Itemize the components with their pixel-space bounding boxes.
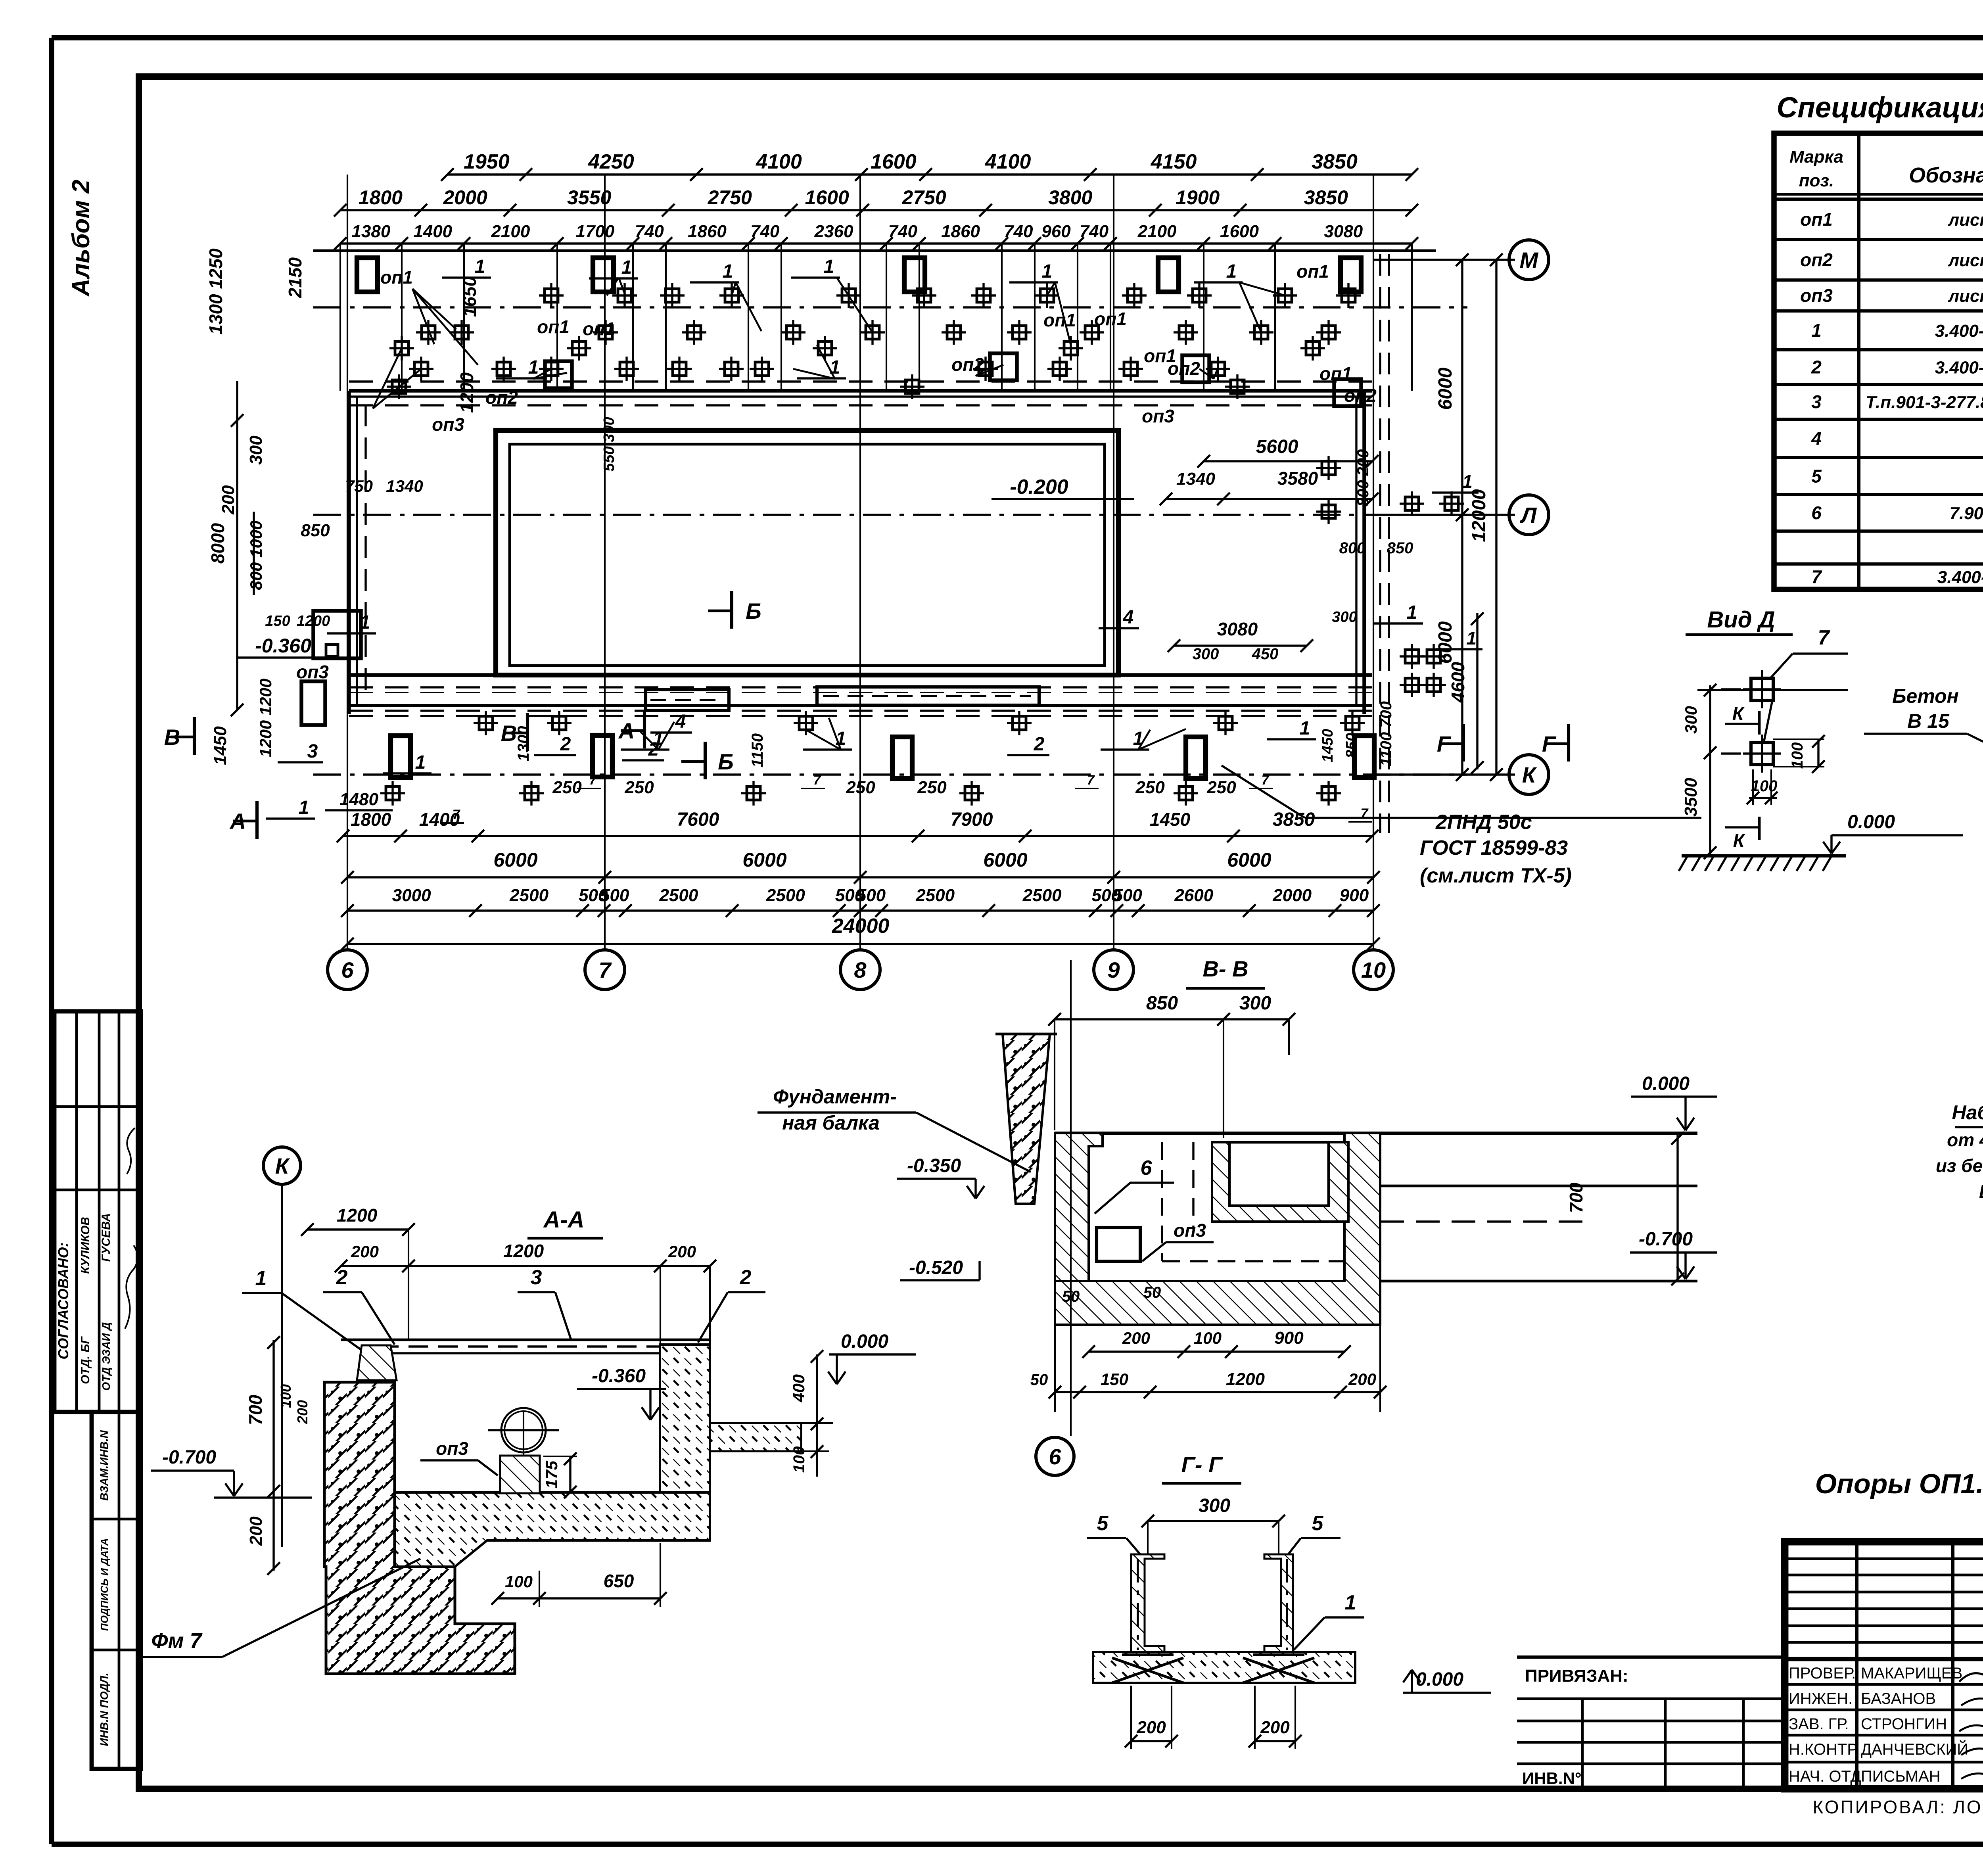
svg-text:7: 7 bbox=[1811, 566, 1822, 587]
svg-text:1: 1 bbox=[723, 261, 733, 282]
svg-text:175: 175 bbox=[542, 1460, 561, 1489]
svg-text:лист 9: лист 9 bbox=[1948, 210, 1983, 230]
svg-text:5: 5 bbox=[1312, 1512, 1324, 1535]
svg-text:1600: 1600 bbox=[871, 150, 917, 173]
svg-text:6000: 6000 bbox=[1435, 621, 1456, 664]
svg-text:700: 700 bbox=[245, 1395, 266, 1425]
svg-text:7: 7 bbox=[1262, 773, 1270, 788]
svg-text:100: 100 bbox=[1751, 777, 1778, 795]
250 dims row bbox=[440, 773, 1372, 823]
svg-text:850: 850 bbox=[301, 521, 330, 540]
svg-text:2000: 2000 bbox=[1272, 886, 1312, 905]
svg-text:200: 200 bbox=[668, 1242, 696, 1261]
svg-text:500: 500 bbox=[1113, 886, 1142, 905]
svg-text:1200: 1200 bbox=[503, 1241, 544, 1261]
svg-text:1: 1 bbox=[1407, 602, 1417, 623]
svg-text:1: 1 bbox=[1466, 628, 1477, 648]
svg-text:2500: 2500 bbox=[915, 886, 955, 905]
svg-text:1860: 1860 bbox=[941, 222, 980, 241]
svg-text:К: К bbox=[1732, 703, 1745, 724]
svg-text:150: 150 bbox=[265, 613, 290, 629]
svg-text:оп1: оп1 bbox=[1800, 209, 1833, 230]
svg-text:В- В: В- В bbox=[1202, 956, 1248, 981]
svg-text:700: 700 bbox=[1566, 1182, 1586, 1213]
svg-text:ИНЖЕН.: ИНЖЕН. bbox=[1789, 1690, 1853, 1707]
svg-text:Т.п.901-3-277.89КЖ.И80.0.0: Т.п.901-3-277.89КЖ.И80.0.0 bbox=[1866, 393, 1983, 412]
svg-text:2500: 2500 bbox=[1022, 886, 1062, 905]
svg-text:400: 400 bbox=[789, 1374, 808, 1402]
axis L dash-dot bbox=[313, 514, 1467, 516]
svg-text:5: 5 bbox=[1811, 466, 1822, 487]
svg-text:Фундамент-: Фундамент- bbox=[773, 1086, 897, 1108]
plan left wall bbox=[349, 391, 366, 714]
svg-text:3500: 3500 bbox=[1681, 778, 1701, 817]
svg-text:3.400- 6/76: 3.400- 6/76 bbox=[1935, 321, 1983, 341]
svg-text:ПРИВЯЗАН:: ПРИВЯЗАН: bbox=[1525, 1666, 1628, 1686]
svg-text:НАЧ. ОТД: НАЧ. ОТД bbox=[1789, 1768, 1861, 1785]
left margin inventory strip bbox=[92, 1412, 141, 1769]
svg-text:1200: 1200 bbox=[1226, 1370, 1265, 1389]
svg-text:1340: 1340 bbox=[1176, 469, 1215, 489]
svg-text:250: 250 bbox=[552, 778, 582, 797]
svg-text:7: 7 bbox=[1087, 773, 1095, 788]
section G-G bbox=[1087, 1495, 1491, 1749]
svg-text:оп2: оп2 bbox=[485, 387, 518, 408]
svg-text:Л: Л bbox=[1520, 503, 1537, 528]
svg-text:300: 300 bbox=[1239, 993, 1271, 1014]
svg-text:200: 200 bbox=[1348, 1370, 1376, 1389]
plan bottom wall band bbox=[349, 675, 1372, 716]
svg-text:250: 250 bbox=[846, 778, 875, 797]
svg-text:ная балка: ная балка bbox=[782, 1112, 880, 1134]
detail Vid D bbox=[1679, 626, 1963, 871]
svg-text:поз.: поз. bbox=[1799, 171, 1834, 190]
svg-text:ИНВ.N ПОДЛ.: ИНВ.N ПОДЛ. bbox=[98, 1673, 110, 1746]
axis M dash-dot bbox=[313, 306, 1467, 308]
svg-text:4: 4 bbox=[1123, 607, 1134, 628]
svg-text:1950: 1950 bbox=[464, 150, 510, 173]
svg-text:3850: 3850 bbox=[1273, 809, 1315, 830]
svg-text:Б: Б bbox=[718, 749, 734, 774]
svg-text:6000: 6000 bbox=[493, 849, 537, 871]
svg-text:КОПИРОВАЛ: ЛОГИНОВА: КОПИРОВАЛ: ЛОГИНОВА bbox=[1812, 1797, 1983, 1817]
grid bubble M bbox=[1509, 240, 1549, 280]
svg-text:1900: 1900 bbox=[1176, 186, 1220, 209]
svg-text:М: М bbox=[1520, 247, 1539, 272]
svg-text:5600: 5600 bbox=[1256, 436, 1298, 457]
svg-text:740: 740 bbox=[1004, 222, 1033, 241]
svg-text:50: 50 bbox=[1143, 1284, 1161, 1301]
svg-text:100: 100 bbox=[790, 1446, 808, 1473]
detail K-K bbox=[1864, 677, 1983, 808]
concrete note bbox=[1815, 1468, 1983, 1499]
detail Vid D heading bbox=[1686, 607, 1793, 635]
svg-text:6: 6 bbox=[1811, 503, 1822, 523]
svg-text:1: 1 bbox=[1226, 261, 1237, 282]
svg-text:200: 200 bbox=[1260, 1718, 1290, 1737]
svg-text:2: 2 bbox=[560, 734, 571, 755]
svg-text:3: 3 bbox=[307, 741, 318, 762]
svg-text:ДАНЧЕВСКИЙ: ДАНЧЕВСКИЙ bbox=[1861, 1740, 1968, 1758]
svg-text:1150: 1150 bbox=[749, 733, 766, 767]
svg-text:7: 7 bbox=[813, 773, 822, 788]
grid bubble 8 bbox=[840, 950, 880, 990]
svg-text:1200: 1200 bbox=[337, 1205, 378, 1226]
svg-text:оп2: оп2 bbox=[951, 354, 984, 375]
svg-text:4250: 4250 bbox=[588, 150, 634, 173]
grid bubble 10 bbox=[1354, 950, 1393, 990]
grid bubble 9 bbox=[1094, 950, 1133, 990]
svg-text:СОГЛАСОВАНО:: СОГЛАСОВАНО: bbox=[55, 1242, 71, 1359]
svg-text:ЗАВ. ГР.: ЗАВ. ГР. bbox=[1789, 1715, 1849, 1733]
svg-text:К: К bbox=[275, 1153, 290, 1178]
svg-text:1: 1 bbox=[1133, 728, 1144, 749]
svg-text:БАЗАНОВ: БАЗАНОВ bbox=[1861, 1690, 1936, 1707]
svg-text:от 40 до 200: от 40 до 200 bbox=[1947, 1130, 1983, 1150]
svg-text:1300 1250: 1300 1250 bbox=[205, 248, 226, 335]
svg-text:1: 1 bbox=[836, 728, 846, 749]
svg-text:(см.лист ТХ-5): (см.лист ТХ-5) bbox=[1420, 864, 1572, 887]
svg-text:300: 300 bbox=[1332, 609, 1357, 625]
svg-text:Марка: Марка bbox=[1789, 147, 1843, 167]
svg-text:Бетон: Бетон bbox=[1892, 685, 1959, 707]
svg-text:1: 1 bbox=[824, 256, 834, 277]
svg-text:9: 9 bbox=[1107, 957, 1120, 982]
svg-text:2500: 2500 bbox=[659, 886, 698, 905]
svg-text:3850: 3850 bbox=[1312, 150, 1358, 173]
svg-text:740: 740 bbox=[1080, 222, 1109, 241]
svg-text:МАКАРИЩЕВ: МАКАРИЩЕВ bbox=[1861, 1665, 1962, 1682]
svg-text:2100: 2100 bbox=[1137, 222, 1177, 241]
bottom dim row 1 bbox=[337, 809, 1379, 842]
svg-text:450: 450 bbox=[1252, 645, 1279, 663]
foundation beam in plan bbox=[646, 687, 1039, 710]
svg-text:1650: 1650 bbox=[459, 276, 480, 317]
svg-text:100: 100 bbox=[1789, 742, 1806, 769]
svg-text:2600: 2600 bbox=[1174, 886, 1213, 905]
svg-text:1400: 1400 bbox=[413, 222, 452, 241]
svg-text:Обозначение: Обозначение bbox=[1909, 163, 1983, 187]
svg-text:250: 250 bbox=[1206, 778, 1236, 797]
album label bbox=[67, 180, 95, 297]
svg-text:оп2: оп2 bbox=[1800, 249, 1833, 270]
svg-text:А-А: А-А bbox=[543, 1207, 584, 1233]
right vertical dim lines bbox=[1373, 253, 1515, 781]
svg-text:ГОСТ 18599-83: ГОСТ 18599-83 bbox=[1420, 836, 1568, 859]
svg-text:10: 10 bbox=[1361, 957, 1386, 982]
plan wall top double line bbox=[349, 382, 1372, 405]
svg-text:К: К bbox=[1522, 762, 1537, 787]
svg-text:960: 960 bbox=[1041, 222, 1071, 241]
svg-text:2: 2 bbox=[336, 1266, 348, 1289]
section V-V bbox=[758, 993, 1717, 1412]
bottom dim row 6000 bbox=[341, 849, 1380, 884]
svg-text:750: 750 bbox=[345, 477, 373, 495]
svg-text:Альбом 2: Альбом 2 bbox=[67, 180, 95, 297]
svg-text:900: 900 bbox=[1340, 886, 1369, 905]
svg-text:1: 1 bbox=[1462, 471, 1473, 492]
section marks in plan bbox=[164, 717, 194, 755]
svg-text:0.000: 0.000 bbox=[1847, 811, 1895, 832]
svg-text:500: 500 bbox=[600, 886, 629, 905]
svg-text:4150: 4150 bbox=[1151, 150, 1197, 173]
svg-text:6000: 6000 bbox=[742, 849, 786, 871]
svg-text:1: 1 bbox=[1042, 261, 1053, 282]
svg-text:Б: Б bbox=[746, 598, 761, 623]
svg-text:1600: 1600 bbox=[805, 186, 849, 209]
svg-text:200: 200 bbox=[1136, 1718, 1166, 1737]
basin inner rectangle bbox=[510, 444, 1105, 666]
svg-text:лист 9: лист 9 bbox=[1948, 286, 1983, 306]
svg-text:3.400- 6/76: 3.400- 6/76 bbox=[1935, 358, 1983, 378]
svg-text:200: 200 bbox=[351, 1242, 379, 1261]
grid bubble L bbox=[1509, 495, 1549, 535]
svg-text:1380: 1380 bbox=[351, 222, 390, 241]
svg-text:0.000: 0.000 bbox=[841, 1331, 888, 1352]
svg-text:1400: 1400 bbox=[419, 809, 460, 830]
svg-text:1800: 1800 bbox=[359, 186, 403, 209]
svg-text:оп1: оп1 bbox=[1094, 309, 1127, 329]
svg-text:оп1: оп1 bbox=[380, 267, 413, 288]
svg-text:Опоры ОП1... ОП3 выполнять из: Опоры ОП1... ОП3 выполнять из бетона В 7… bbox=[1815, 1468, 1983, 1499]
numeric leaders in plan bbox=[266, 256, 1423, 819]
svg-text:200: 200 bbox=[219, 485, 238, 515]
bottom dim row 24000 bbox=[341, 915, 1380, 950]
svg-text:250: 250 bbox=[1135, 778, 1165, 797]
svg-text:Фм 7: Фм 7 bbox=[151, 1629, 203, 1653]
svg-text:1: 1 bbox=[528, 357, 539, 378]
svg-text:800: 800 bbox=[1339, 539, 1366, 557]
svg-text:200: 200 bbox=[294, 1400, 311, 1424]
svg-text:300: 300 bbox=[1199, 1495, 1230, 1516]
svg-text:300: 300 bbox=[1193, 645, 1219, 663]
svg-text:250: 250 bbox=[917, 778, 947, 797]
svg-text:1700: 1700 bbox=[575, 222, 614, 241]
svg-text:6: 6 bbox=[1141, 1157, 1153, 1180]
svg-text:В 3.5: В 3.5 bbox=[1979, 1181, 1983, 1202]
svg-text:850: 850 bbox=[1387, 539, 1413, 557]
svg-text:1480: 1480 bbox=[339, 790, 378, 809]
svg-text:3580: 3580 bbox=[1277, 468, 1318, 489]
svg-text:К: К bbox=[1733, 830, 1745, 851]
svg-text:ГУСЕВА: ГУСЕВА bbox=[100, 1213, 113, 1262]
svg-text:3080: 3080 bbox=[1324, 222, 1363, 241]
level -0.200 bbox=[991, 476, 1134, 499]
svg-text:2: 2 bbox=[1811, 357, 1822, 378]
svg-text:3080: 3080 bbox=[1217, 619, 1258, 639]
grid bubble K bbox=[1509, 755, 1549, 794]
svg-text:Н.КОНТР: Н.КОНТР bbox=[1789, 1741, 1858, 1758]
svg-text:50: 50 bbox=[1030, 1371, 1048, 1389]
svg-text:1: 1 bbox=[830, 357, 840, 378]
top anchor plates row bbox=[357, 258, 1361, 292]
svg-text:ПРОВЕР.: ПРОВЕР. bbox=[1789, 1665, 1856, 1682]
svg-text:7900: 7900 bbox=[951, 809, 993, 830]
svg-text:СТРОНГИН: СТРОНГИН bbox=[1861, 1715, 1947, 1733]
svg-text:-0.520: -0.520 bbox=[909, 1257, 963, 1278]
svg-text:В 15: В 15 bbox=[1907, 710, 1950, 732]
svg-text:оп1: оп1 bbox=[1043, 310, 1076, 330]
svg-text:1: 1 bbox=[1345, 1591, 1356, 1614]
svg-text:-0.700: -0.700 bbox=[162, 1447, 216, 1468]
section bubble 6 bbox=[1036, 1437, 1074, 1475]
svg-text:1600: 1600 bbox=[1220, 222, 1259, 241]
svg-text:500: 500 bbox=[857, 886, 886, 905]
svg-text:3800: 3800 bbox=[1048, 186, 1092, 209]
svg-text:1450: 1450 bbox=[1319, 729, 1336, 763]
left vertical dims bbox=[205, 248, 618, 810]
plan right wall bbox=[1356, 254, 1389, 833]
attachment block left of title bbox=[1517, 1657, 1785, 1789]
svg-text:1300: 1300 bbox=[515, 726, 532, 762]
svg-text:ПИСЬМАН: ПИСЬМАН bbox=[1861, 1768, 1941, 1785]
grid bubble 6 bbox=[328, 950, 367, 990]
svg-text:1: 1 bbox=[1811, 320, 1822, 341]
svg-text:4600: 4600 bbox=[1448, 662, 1468, 703]
svg-text:4: 4 bbox=[1811, 428, 1822, 449]
right side dims bbox=[515, 436, 1484, 774]
svg-text:850: 850 bbox=[1146, 993, 1178, 1014]
svg-text:300: 300 bbox=[1682, 706, 1700, 734]
svg-text:2ПНД 50с: 2ПНД 50с bbox=[1435, 811, 1532, 834]
left margin approval table bbox=[54, 1011, 141, 1412]
svg-text:900: 900 bbox=[1274, 1328, 1304, 1348]
svg-text:6: 6 bbox=[341, 957, 354, 982]
svg-text:5: 5 bbox=[1097, 1512, 1109, 1535]
svg-text:200: 200 bbox=[1122, 1329, 1150, 1347]
svg-text:1450: 1450 bbox=[1150, 809, 1191, 830]
svg-text:1860: 1860 bbox=[688, 222, 727, 241]
section A-A K bubble bbox=[263, 1147, 301, 1184]
svg-text:7.901-6: 7.901-6 bbox=[1949, 504, 1983, 523]
svg-text:4100: 4100 bbox=[756, 150, 802, 173]
svg-text:7: 7 bbox=[1818, 626, 1830, 649]
svg-text:КУЛИКОВ: КУЛИКОВ bbox=[79, 1217, 92, 1274]
svg-text:650: 650 bbox=[604, 1571, 634, 1591]
section V-V heading bbox=[1186, 956, 1265, 988]
bottom squares row bbox=[380, 711, 1365, 806]
svg-text:24000: 24000 bbox=[832, 915, 890, 938]
svg-text:-0.350: -0.350 bbox=[907, 1155, 961, 1176]
svg-text:100: 100 bbox=[505, 1572, 533, 1591]
section A-A heading bbox=[527, 1207, 603, 1238]
svg-text:1200 1200: 1200 1200 bbox=[256, 679, 275, 758]
svg-text:1200: 1200 bbox=[456, 372, 477, 413]
svg-text:Набетонка: Набетонка bbox=[1952, 1101, 1983, 1124]
svg-text:4: 4 bbox=[675, 711, 686, 732]
svg-text:1: 1 bbox=[621, 257, 632, 278]
detail B-B channel bbox=[1936, 857, 1983, 1202]
svg-text:6: 6 bbox=[1049, 1444, 1061, 1469]
svg-text:оп2: оп2 bbox=[1344, 385, 1377, 406]
svg-text:Г- Г: Г- Г bbox=[1181, 1452, 1224, 1477]
svg-text:ИНВ.N°: ИНВ.N° bbox=[1522, 1769, 1582, 1788]
plan top edge line bbox=[313, 249, 1436, 252]
svg-text:300: 300 bbox=[246, 435, 266, 465]
level -0.360 left bbox=[238, 635, 329, 658]
svg-text:-0.360: -0.360 bbox=[592, 1366, 646, 1387]
bottom anchor plates row bbox=[391, 735, 1374, 779]
svg-text:Вид Д: Вид Д bbox=[1707, 607, 1775, 633]
svg-text:2360: 2360 bbox=[814, 222, 853, 241]
svg-text:1450: 1450 bbox=[211, 726, 230, 765]
svg-text:оп1: оп1 bbox=[583, 318, 615, 339]
svg-text:8: 8 bbox=[854, 957, 867, 982]
svg-text:2: 2 bbox=[740, 1266, 752, 1289]
svg-text:2750: 2750 bbox=[708, 186, 752, 209]
section A-A bbox=[139, 1205, 916, 1674]
plan top dimension row 1 bbox=[441, 150, 1418, 181]
svg-text:ОТД ЭЗАИ Д: ОТД ЭЗАИ Д bbox=[100, 1322, 112, 1391]
svg-text:2500: 2500 bbox=[509, 886, 548, 905]
svg-text:800 200: 800 200 bbox=[1354, 449, 1372, 507]
svg-text:2750: 2750 bbox=[901, 186, 946, 209]
svg-text:0.000: 0.000 bbox=[1416, 1669, 1463, 1690]
svg-text:7600: 7600 bbox=[677, 809, 719, 830]
plan grid axis lines bbox=[347, 175, 1373, 950]
svg-text:1: 1 bbox=[415, 752, 426, 773]
svg-text:оп2: оп2 bbox=[1168, 358, 1200, 379]
svg-text:800 1000: 800 1000 bbox=[247, 520, 265, 590]
svg-text:оп3: оп3 bbox=[436, 1438, 468, 1459]
axis K dash-dot bbox=[313, 773, 1467, 775]
svg-text:6000: 6000 bbox=[983, 849, 1027, 871]
spec table title bbox=[1777, 92, 1983, 124]
svg-text:100: 100 bbox=[1194, 1329, 1222, 1347]
svg-text:8000: 8000 bbox=[207, 523, 228, 564]
svg-text:1100 700: 1100 700 bbox=[1377, 701, 1395, 766]
svg-text:2100: 2100 bbox=[491, 222, 530, 241]
op labels in plan bbox=[296, 261, 1377, 682]
svg-text:лист 9: лист 9 bbox=[1948, 251, 1983, 270]
svg-text:ОТД. БГ: ОТД. БГ bbox=[79, 1336, 92, 1384]
svg-text:2150: 2150 bbox=[285, 257, 305, 298]
svg-text:1: 1 bbox=[1300, 718, 1310, 739]
op2 big squares bbox=[545, 353, 1361, 406]
svg-text:оп1: оп1 bbox=[537, 317, 570, 337]
svg-text:0.000: 0.000 bbox=[1642, 1073, 1690, 1094]
svg-text:6000: 6000 bbox=[1227, 849, 1271, 871]
svg-text:100: 100 bbox=[278, 1384, 294, 1408]
svg-text:1: 1 bbox=[255, 1267, 267, 1290]
svg-text:ПОДПИСЬ И ДАТА: ПОДПИСЬ И ДАТА bbox=[98, 1538, 110, 1631]
bottom dim row small bbox=[341, 886, 1380, 917]
svg-text:3: 3 bbox=[531, 1266, 542, 1289]
svg-text:1340: 1340 bbox=[386, 477, 423, 495]
svg-text:740: 740 bbox=[635, 222, 664, 241]
svg-text:250: 250 bbox=[624, 778, 654, 797]
svg-text:2: 2 bbox=[648, 739, 659, 760]
svg-text:2: 2 bbox=[1034, 734, 1045, 755]
grid bubble 7 bbox=[585, 950, 625, 990]
basin outer rectangle bbox=[496, 430, 1118, 675]
svg-text:7: 7 bbox=[598, 957, 612, 982]
plan top dimension row 3 bbox=[334, 222, 1418, 391]
svg-text:оп3: оп3 bbox=[1174, 1220, 1206, 1241]
svg-text:оп1: оп1 bbox=[1296, 261, 1329, 282]
svg-text:-0.200: -0.200 bbox=[1010, 476, 1068, 499]
svg-text:3: 3 bbox=[1811, 391, 1822, 412]
svg-text:6000: 6000 bbox=[1435, 367, 1456, 410]
spec table bbox=[1774, 133, 1983, 589]
svg-text:200: 200 bbox=[246, 1516, 266, 1546]
pipe note 2PND bbox=[1222, 765, 1701, 887]
svg-text:-0.360: -0.360 bbox=[255, 635, 311, 657]
svg-text:3.400-6/76: 3.400-6/76 bbox=[1937, 568, 1983, 587]
section G-G heading bbox=[1162, 1452, 1241, 1483]
plan top dimension row 2 bbox=[334, 186, 1418, 217]
embedded part squares upper rows bbox=[387, 283, 1361, 399]
